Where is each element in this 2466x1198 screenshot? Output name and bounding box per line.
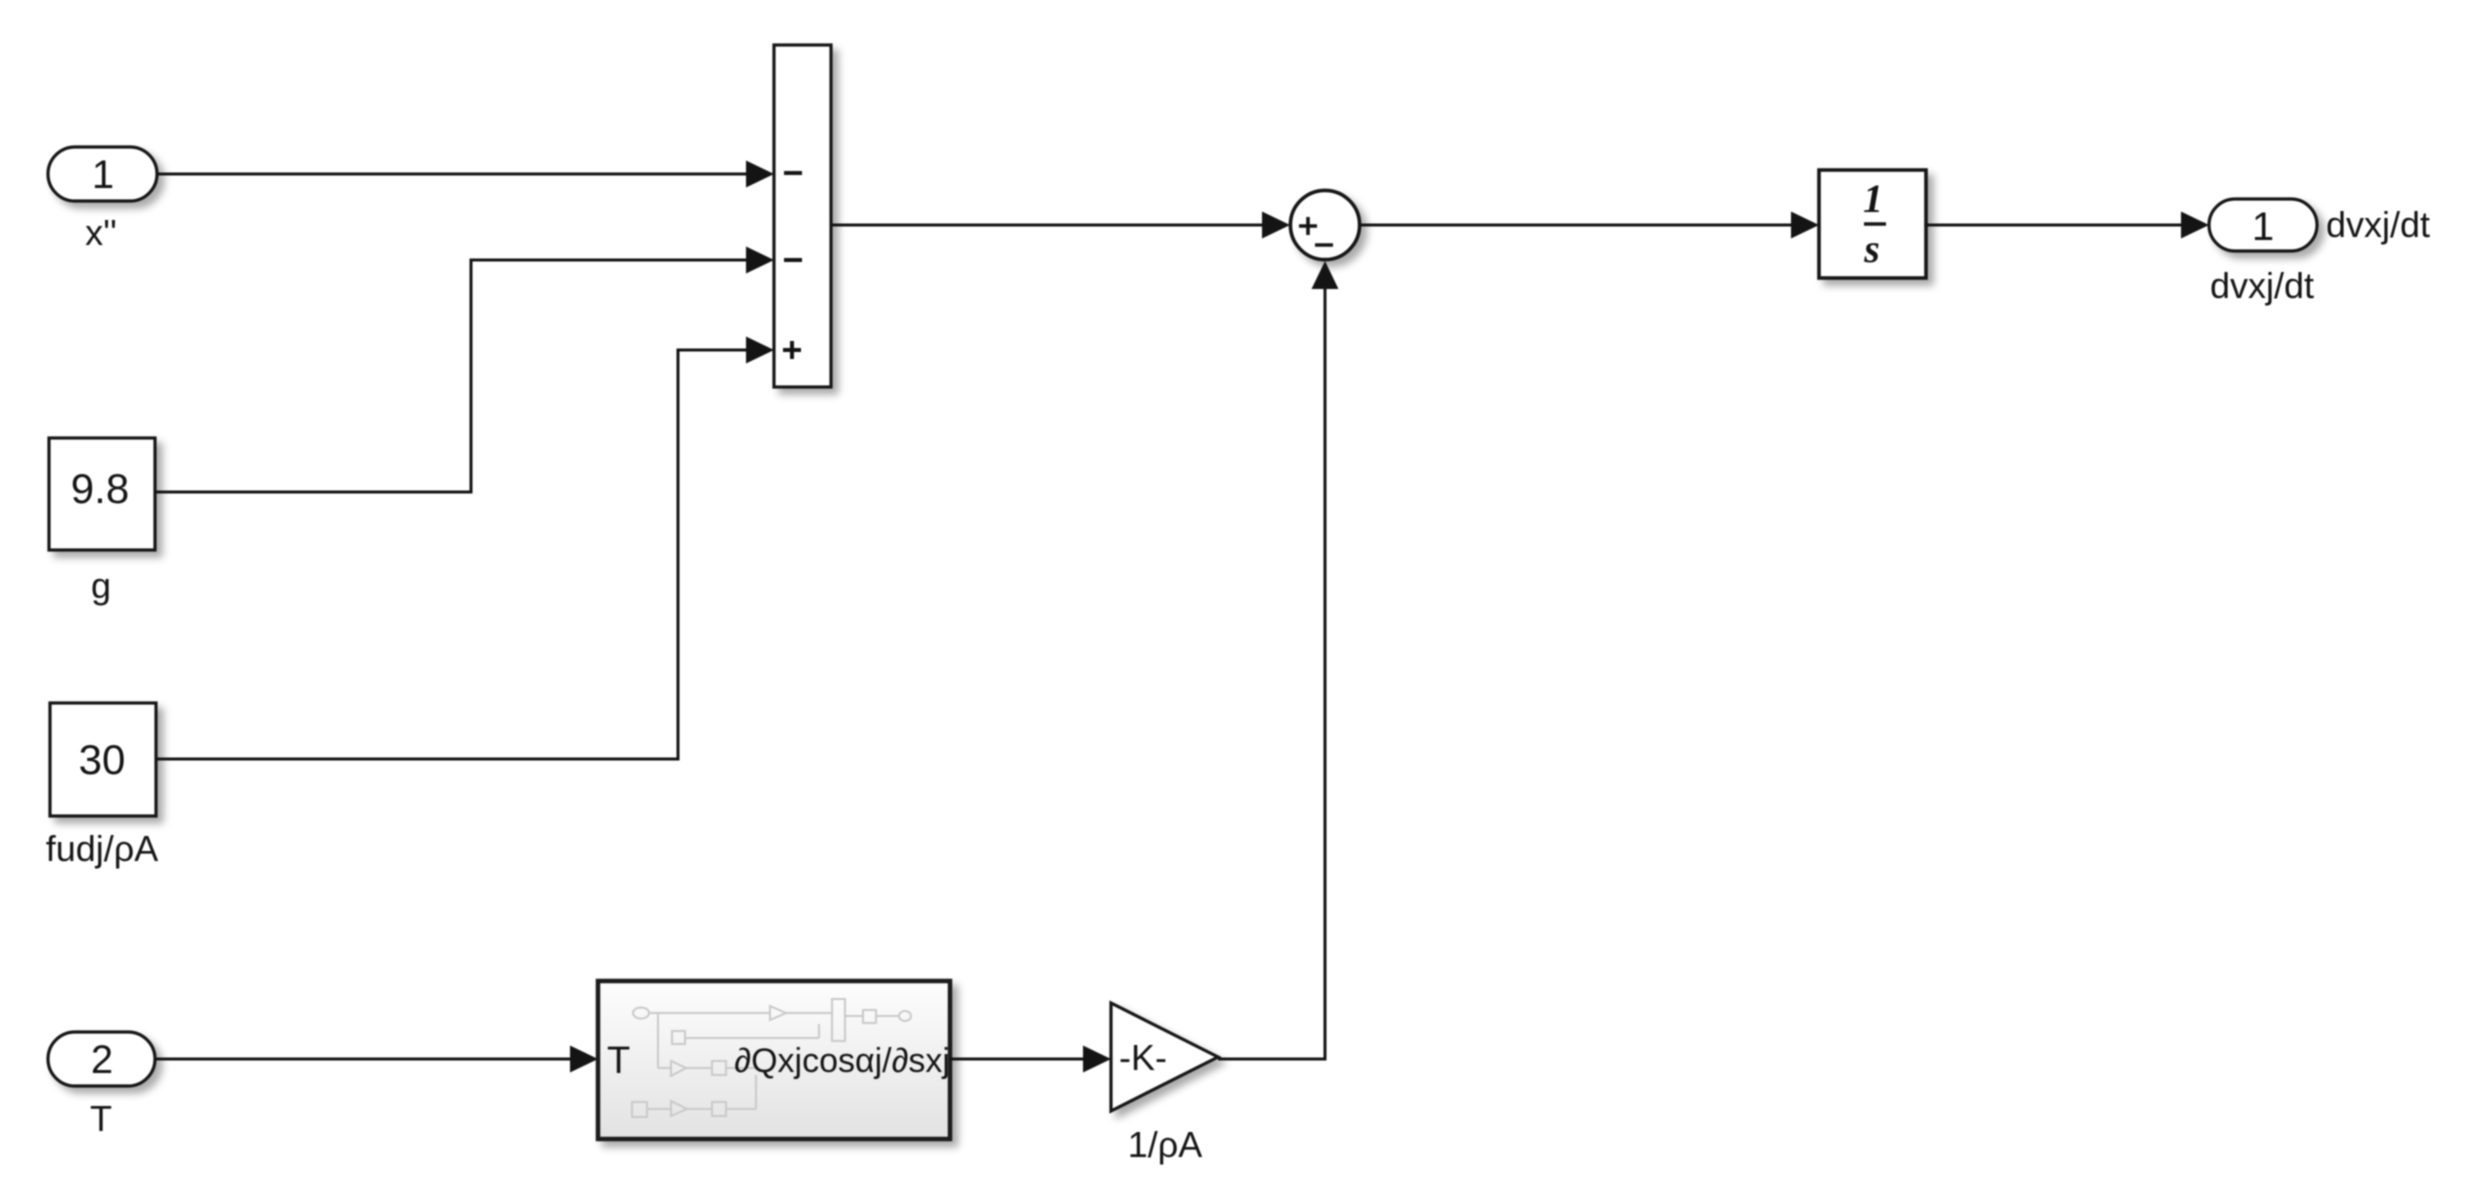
svg-text:dvxj/dt: dvxj/dt <box>2326 204 2430 245</box>
svg-text:-K-: -K- <box>1119 1037 1167 1078</box>
sum sign plus port 3 <box>783 341 801 359</box>
wire sum block to sum circle <box>831 224 1265 227</box>
svg-text:x'': x'' <box>85 212 117 253</box>
wire integrator to outport <box>1926 224 2185 227</box>
wire gain to sum circle bottom <box>1218 287 1325 1059</box>
wire subsystem to gain <box>950 1058 1087 1061</box>
subsystem block dQxjcosaj/dsxj <box>598 981 950 1139</box>
wire inport2 to subsystem <box>155 1058 574 1061</box>
svg-text:9.8: 9.8 <box>71 465 129 512</box>
svg-text:1: 1 <box>92 153 114 197</box>
svg-text:1/ρA: 1/ρA <box>1128 1124 1203 1165</box>
sum circle <box>1290 190 1359 259</box>
constant block 9.8 <box>49 438 155 550</box>
svg-text:fudj/ρA: fudj/ρA <box>46 828 159 869</box>
sum sign minus port 1 <box>784 171 802 175</box>
sum sign minus port 2 <box>784 258 802 262</box>
sum circle plus sign <box>1299 217 1317 235</box>
svg-text:30: 30 <box>79 736 126 783</box>
wire 9.8 to sum input 2 <box>155 260 750 492</box>
sum circle minus sign <box>1315 243 1333 247</box>
svg-text:dvxj/dt: dvxj/dt <box>2210 265 2314 306</box>
svg-text:2: 2 <box>91 1038 113 1082</box>
svg-text:T: T <box>607 1040 630 1082</box>
svg-text:1: 1 <box>1863 176 1883 221</box>
gain block -K- <box>1111 1003 1218 1111</box>
svg-text:∂Qxjcosαj/∂sxj: ∂Qxjcosαj/∂sxj <box>734 1042 950 1080</box>
svg-text:1: 1 <box>2252 205 2274 249</box>
sum block (vertical rectangle) <box>774 45 831 387</box>
svg-text:g: g <box>91 565 111 606</box>
constant block 30 <box>50 703 156 816</box>
wire 30 to sum input 3 <box>156 350 750 759</box>
svg-text:s: s <box>1863 226 1880 271</box>
wire sum circle to integrator <box>1360 224 1795 227</box>
outport 1 block <box>2209 199 2317 251</box>
inport 2 block <box>48 1032 155 1086</box>
inport 1 block <box>48 147 157 201</box>
subsystem preview sketch <box>632 999 911 1117</box>
svg-text:T: T <box>90 1098 112 1139</box>
wire inport1 to sum input 1 <box>157 173 750 176</box>
integrator block 1/s <box>1819 170 1926 278</box>
